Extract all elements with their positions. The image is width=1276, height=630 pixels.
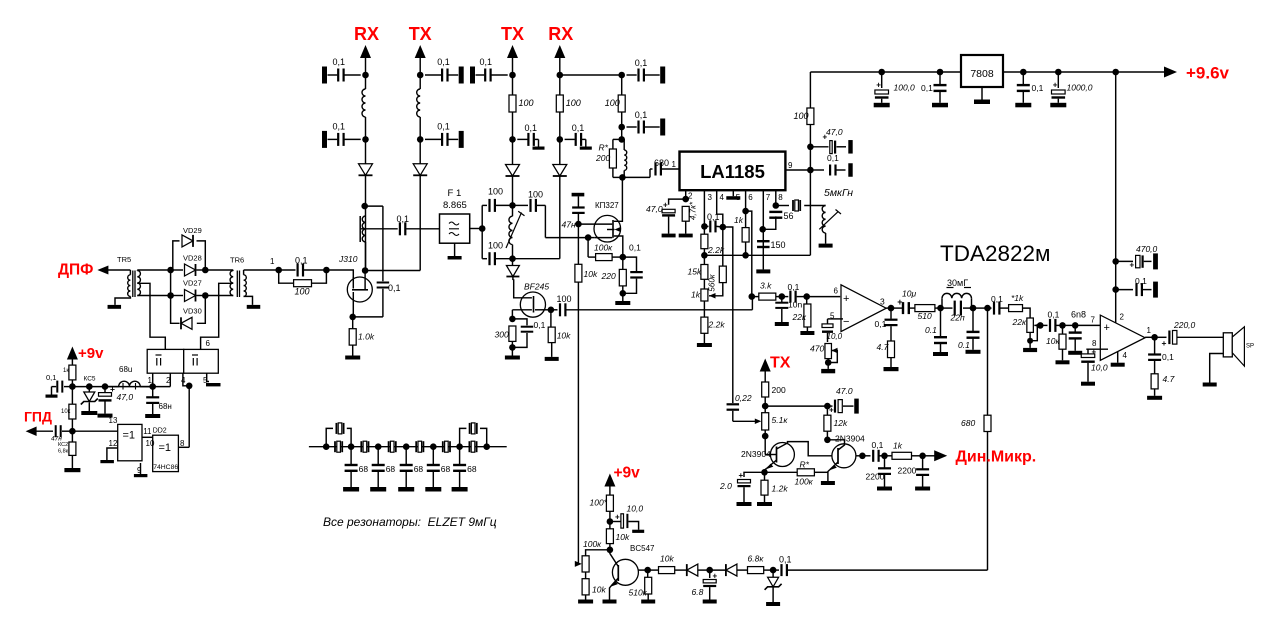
svg-text:12k: 12k bbox=[834, 418, 848, 428]
svg-text:+: + bbox=[110, 384, 115, 394]
svg-text:7: 7 bbox=[766, 193, 771, 202]
svg-text:2200: 2200 bbox=[898, 466, 917, 476]
svg-text:+9v: +9v bbox=[78, 345, 104, 362]
svg-text:4,7к*: 4,7к* bbox=[689, 201, 698, 220]
svg-text:Все резонаторы: ELZET 9мГц: Все резонаторы: ELZET 9мГц bbox=[323, 515, 497, 529]
svg-text:6: 6 bbox=[748, 193, 753, 202]
svg-text:TR5: TR5 bbox=[117, 255, 131, 264]
svg-text:30мГ: 30мГ bbox=[947, 278, 968, 288]
svg-text:510: 510 bbox=[918, 311, 932, 321]
svg-text:КП327: КП327 bbox=[595, 201, 619, 210]
svg-text:+: + bbox=[843, 293, 849, 305]
svg-text:TDA2822м: TDA2822м bbox=[940, 241, 1051, 266]
svg-text:9: 9 bbox=[137, 466, 142, 475]
svg-text:10,0: 10,0 bbox=[827, 332, 843, 341]
svg-text:56: 56 bbox=[784, 211, 794, 221]
svg-text:0,1: 0,1 bbox=[333, 121, 346, 131]
svg-text:8.865: 8.865 bbox=[443, 200, 467, 211]
svg-text:−: − bbox=[843, 316, 849, 328]
svg-text:0,1: 0,1 bbox=[534, 320, 546, 330]
svg-text:6.8: 6.8 bbox=[692, 587, 704, 597]
svg-text:47,0: 47,0 bbox=[646, 204, 663, 214]
svg-text:47.0: 47.0 bbox=[836, 386, 853, 396]
svg-text:1.0k: 1.0k bbox=[358, 332, 375, 342]
svg-text:13: 13 bbox=[109, 416, 118, 425]
svg-text:TX: TX bbox=[501, 24, 524, 44]
svg-text:VD27: VD27 bbox=[183, 279, 202, 288]
svg-text:1: 1 bbox=[1147, 326, 1152, 335]
svg-text:6: 6 bbox=[834, 287, 839, 296]
svg-text:470,0: 470,0 bbox=[1136, 244, 1158, 254]
svg-text:68: 68 bbox=[414, 464, 424, 474]
svg-text:0,1: 0,1 bbox=[635, 58, 648, 68]
svg-text:BC547: BC547 bbox=[630, 544, 655, 553]
svg-text:0,1: 0,1 bbox=[991, 294, 1003, 304]
svg-text:7: 7 bbox=[1091, 316, 1096, 325]
svg-text:220,0: 220,0 bbox=[1173, 320, 1196, 330]
svg-text:0,1: 0,1 bbox=[397, 214, 410, 224]
svg-text:0,1: 0,1 bbox=[635, 110, 648, 120]
svg-text:10μ: 10μ bbox=[902, 289, 916, 299]
svg-text:0,1: 0,1 bbox=[1162, 352, 1174, 362]
svg-text:47н: 47н bbox=[562, 220, 576, 230]
svg-text:+: + bbox=[1162, 338, 1167, 348]
svg-text:0,1: 0,1 bbox=[295, 256, 308, 266]
svg-text:1: 1 bbox=[672, 160, 677, 169]
svg-text:100к: 100к bbox=[583, 539, 602, 549]
svg-text:10к: 10к bbox=[61, 409, 71, 415]
svg-text:2N3904: 2N3904 bbox=[835, 434, 865, 444]
svg-text:0,1: 0,1 bbox=[572, 123, 585, 133]
svg-text:1k: 1k bbox=[734, 215, 744, 225]
svg-text:11: 11 bbox=[143, 427, 152, 436]
svg-text:100: 100 bbox=[605, 98, 620, 108]
svg-text:10n: 10n bbox=[788, 300, 802, 310]
svg-text:0,1: 0,1 bbox=[921, 83, 933, 93]
svg-text:0,1: 0,1 bbox=[437, 121, 450, 131]
svg-text:3: 3 bbox=[880, 297, 885, 307]
svg-text:R*: R* bbox=[800, 460, 810, 470]
svg-text:12: 12 bbox=[109, 439, 118, 448]
svg-text:6.8к: 6.8к bbox=[748, 554, 765, 564]
svg-text:200: 200 bbox=[595, 153, 610, 163]
svg-text:+: + bbox=[897, 297, 902, 307]
svg-text:100: 100 bbox=[295, 287, 310, 297]
svg-text:TX: TX bbox=[409, 24, 432, 44]
svg-text:1.2k: 1.2k bbox=[772, 484, 789, 494]
svg-text:+: + bbox=[739, 471, 744, 480]
svg-text:9: 9 bbox=[788, 161, 793, 170]
svg-text:RX: RX bbox=[354, 24, 379, 44]
svg-text:10k: 10k bbox=[584, 269, 598, 279]
svg-text:47,0: 47,0 bbox=[826, 127, 843, 137]
svg-text:10k: 10k bbox=[660, 554, 674, 564]
svg-text:TR6: TR6 bbox=[230, 256, 244, 265]
svg-text:22к: 22к bbox=[792, 312, 807, 322]
svg-text:5мкГн: 5мкГн bbox=[824, 187, 853, 199]
svg-text:74HC86: 74HC86 bbox=[153, 464, 178, 471]
svg-text:1k: 1k bbox=[893, 441, 903, 451]
svg-text:3: 3 bbox=[708, 193, 713, 202]
svg-text:+: + bbox=[1104, 322, 1110, 334]
svg-text:200: 200 bbox=[772, 385, 786, 395]
svg-text:47,0: 47,0 bbox=[117, 392, 134, 402]
svg-text:100: 100 bbox=[528, 189, 543, 199]
svg-text:0,1: 0,1 bbox=[827, 153, 839, 163]
svg-text:8: 8 bbox=[778, 193, 783, 202]
svg-text:4.7: 4.7 bbox=[1163, 374, 1175, 384]
svg-text:3.k: 3.k bbox=[760, 281, 772, 291]
svg-text:DD2: DD2 bbox=[153, 428, 167, 435]
svg-text:VD28: VD28 bbox=[183, 254, 202, 263]
svg-text:100: 100 bbox=[488, 241, 503, 251]
svg-text:1k: 1k bbox=[691, 290, 701, 300]
svg-text:6n8: 6n8 bbox=[1071, 310, 1086, 320]
svg-text:0,1: 0,1 bbox=[1048, 310, 1060, 320]
svg-text:+9v: +9v bbox=[614, 465, 641, 482]
svg-text:100: 100 bbox=[488, 187, 503, 197]
svg-text:100: 100 bbox=[519, 98, 534, 108]
svg-text:300: 300 bbox=[495, 330, 509, 340]
svg-text:470: 470 bbox=[810, 344, 824, 354]
svg-text:0,1: 0,1 bbox=[333, 57, 346, 67]
svg-text:100к: 100к bbox=[594, 243, 613, 253]
svg-text:0,1: 0,1 bbox=[525, 123, 538, 133]
svg-text:1: 1 bbox=[270, 257, 275, 266]
svg-text:7808: 7808 bbox=[970, 68, 994, 80]
svg-text:100к: 100к bbox=[795, 477, 814, 487]
svg-text:КС2: КС2 bbox=[58, 442, 68, 448]
svg-text:4: 4 bbox=[720, 193, 725, 202]
svg-text:TX: TX bbox=[770, 355, 791, 372]
svg-text:68: 68 bbox=[467, 464, 477, 474]
svg-text:+: + bbox=[876, 81, 881, 90]
svg-text:1к: 1к bbox=[63, 368, 69, 374]
svg-text:ГПД: ГПД bbox=[24, 409, 52, 425]
svg-text:68u: 68u bbox=[119, 365, 132, 374]
svg-text:J310: J310 bbox=[338, 254, 358, 264]
svg-text:0.1: 0.1 bbox=[925, 325, 937, 335]
svg-text:VD29: VD29 bbox=[183, 226, 202, 235]
svg-text:0,1: 0,1 bbox=[388, 283, 401, 293]
svg-text:+: + bbox=[1092, 348, 1097, 357]
svg-text:BF245: BF245 bbox=[524, 282, 549, 292]
svg-text:10k: 10k bbox=[557, 331, 571, 341]
svg-text:10: 10 bbox=[146, 439, 155, 448]
svg-text:10k: 10k bbox=[616, 532, 630, 542]
svg-text:Дин.Микр.: Дин.Микр. bbox=[956, 449, 1037, 466]
svg-text:0,1: 0,1 bbox=[707, 212, 720, 222]
svg-text:22к: 22к bbox=[1012, 317, 1027, 327]
svg-text:RX: RX bbox=[548, 24, 573, 44]
svg-text:+: + bbox=[1130, 261, 1135, 270]
svg-text:2: 2 bbox=[1120, 313, 1125, 322]
svg-text:=1: =1 bbox=[123, 430, 136, 442]
svg-text:2200: 2200 bbox=[866, 472, 885, 482]
svg-text:510к: 510к bbox=[629, 588, 648, 598]
svg-text:ДПФ: ДПФ bbox=[58, 262, 93, 279]
svg-text:*1k: *1k bbox=[1011, 293, 1024, 303]
svg-text:68: 68 bbox=[441, 464, 451, 474]
svg-text:КС5: КС5 bbox=[84, 376, 96, 383]
svg-text:+: + bbox=[663, 201, 668, 210]
svg-text:F 1: F 1 bbox=[448, 188, 462, 199]
svg-text:4.7: 4.7 bbox=[877, 342, 889, 352]
svg-text:SP: SP bbox=[1246, 344, 1254, 350]
svg-text:LA1185: LA1185 bbox=[700, 161, 765, 182]
svg-text:100,0: 100,0 bbox=[894, 83, 916, 93]
svg-text:0,1: 0,1 bbox=[480, 57, 493, 67]
svg-text:VD30: VD30 bbox=[183, 307, 202, 316]
svg-text:68н: 68н bbox=[159, 402, 172, 411]
svg-text:+: + bbox=[1053, 81, 1058, 90]
svg-text:100: 100 bbox=[566, 98, 581, 108]
svg-text:560к: 560к bbox=[708, 273, 717, 291]
svg-text:0,1: 0,1 bbox=[872, 440, 884, 450]
svg-text:0,22: 0,22 bbox=[735, 393, 752, 403]
svg-text:0,1: 0,1 bbox=[1032, 83, 1044, 93]
svg-text:R*: R* bbox=[599, 143, 609, 153]
svg-text:680: 680 bbox=[654, 158, 669, 168]
svg-text:15k: 15k bbox=[688, 267, 702, 277]
svg-text:68: 68 bbox=[359, 464, 369, 474]
svg-text:0,1: 0,1 bbox=[779, 555, 792, 565]
svg-text:+: + bbox=[829, 406, 834, 415]
svg-text:6: 6 bbox=[206, 339, 211, 348]
svg-text:0,1: 0,1 bbox=[629, 243, 641, 253]
svg-text:10k: 10k bbox=[592, 585, 606, 595]
svg-text:0,1: 0,1 bbox=[788, 282, 800, 292]
svg-text:+9.6v: +9.6v bbox=[1186, 64, 1230, 83]
svg-text:2.0: 2.0 bbox=[719, 481, 732, 491]
svg-text:10,0: 10,0 bbox=[1091, 363, 1108, 373]
svg-text:10к: 10к bbox=[1046, 336, 1060, 346]
svg-text:10,0: 10,0 bbox=[627, 504, 644, 514]
svg-text:220: 220 bbox=[601, 271, 616, 281]
svg-text:0,1: 0,1 bbox=[1135, 276, 1147, 286]
svg-text:5.1к: 5.1к bbox=[772, 415, 789, 425]
svg-text:+: + bbox=[615, 513, 620, 522]
svg-text:=1: =1 bbox=[159, 442, 172, 454]
svg-text:2.2k: 2.2k bbox=[708, 320, 726, 330]
svg-text:100: 100 bbox=[557, 294, 572, 304]
svg-text:100*: 100* bbox=[590, 498, 608, 508]
svg-text:0.1: 0.1 bbox=[958, 340, 970, 350]
svg-text:100: 100 bbox=[794, 111, 809, 121]
svg-text:6,8к: 6,8к bbox=[58, 449, 69, 455]
svg-text:68: 68 bbox=[386, 464, 396, 474]
svg-text:680: 680 bbox=[961, 418, 975, 428]
svg-text:0,1: 0,1 bbox=[46, 373, 56, 382]
svg-text:0,1: 0,1 bbox=[875, 319, 887, 329]
svg-text:4: 4 bbox=[1123, 351, 1128, 360]
svg-text:1000,0: 1000,0 bbox=[1067, 83, 1093, 93]
svg-text:+: + bbox=[713, 572, 718, 581]
svg-text:0,1: 0,1 bbox=[437, 57, 450, 67]
svg-text:22п: 22п bbox=[950, 313, 965, 323]
svg-text:150: 150 bbox=[771, 240, 786, 250]
